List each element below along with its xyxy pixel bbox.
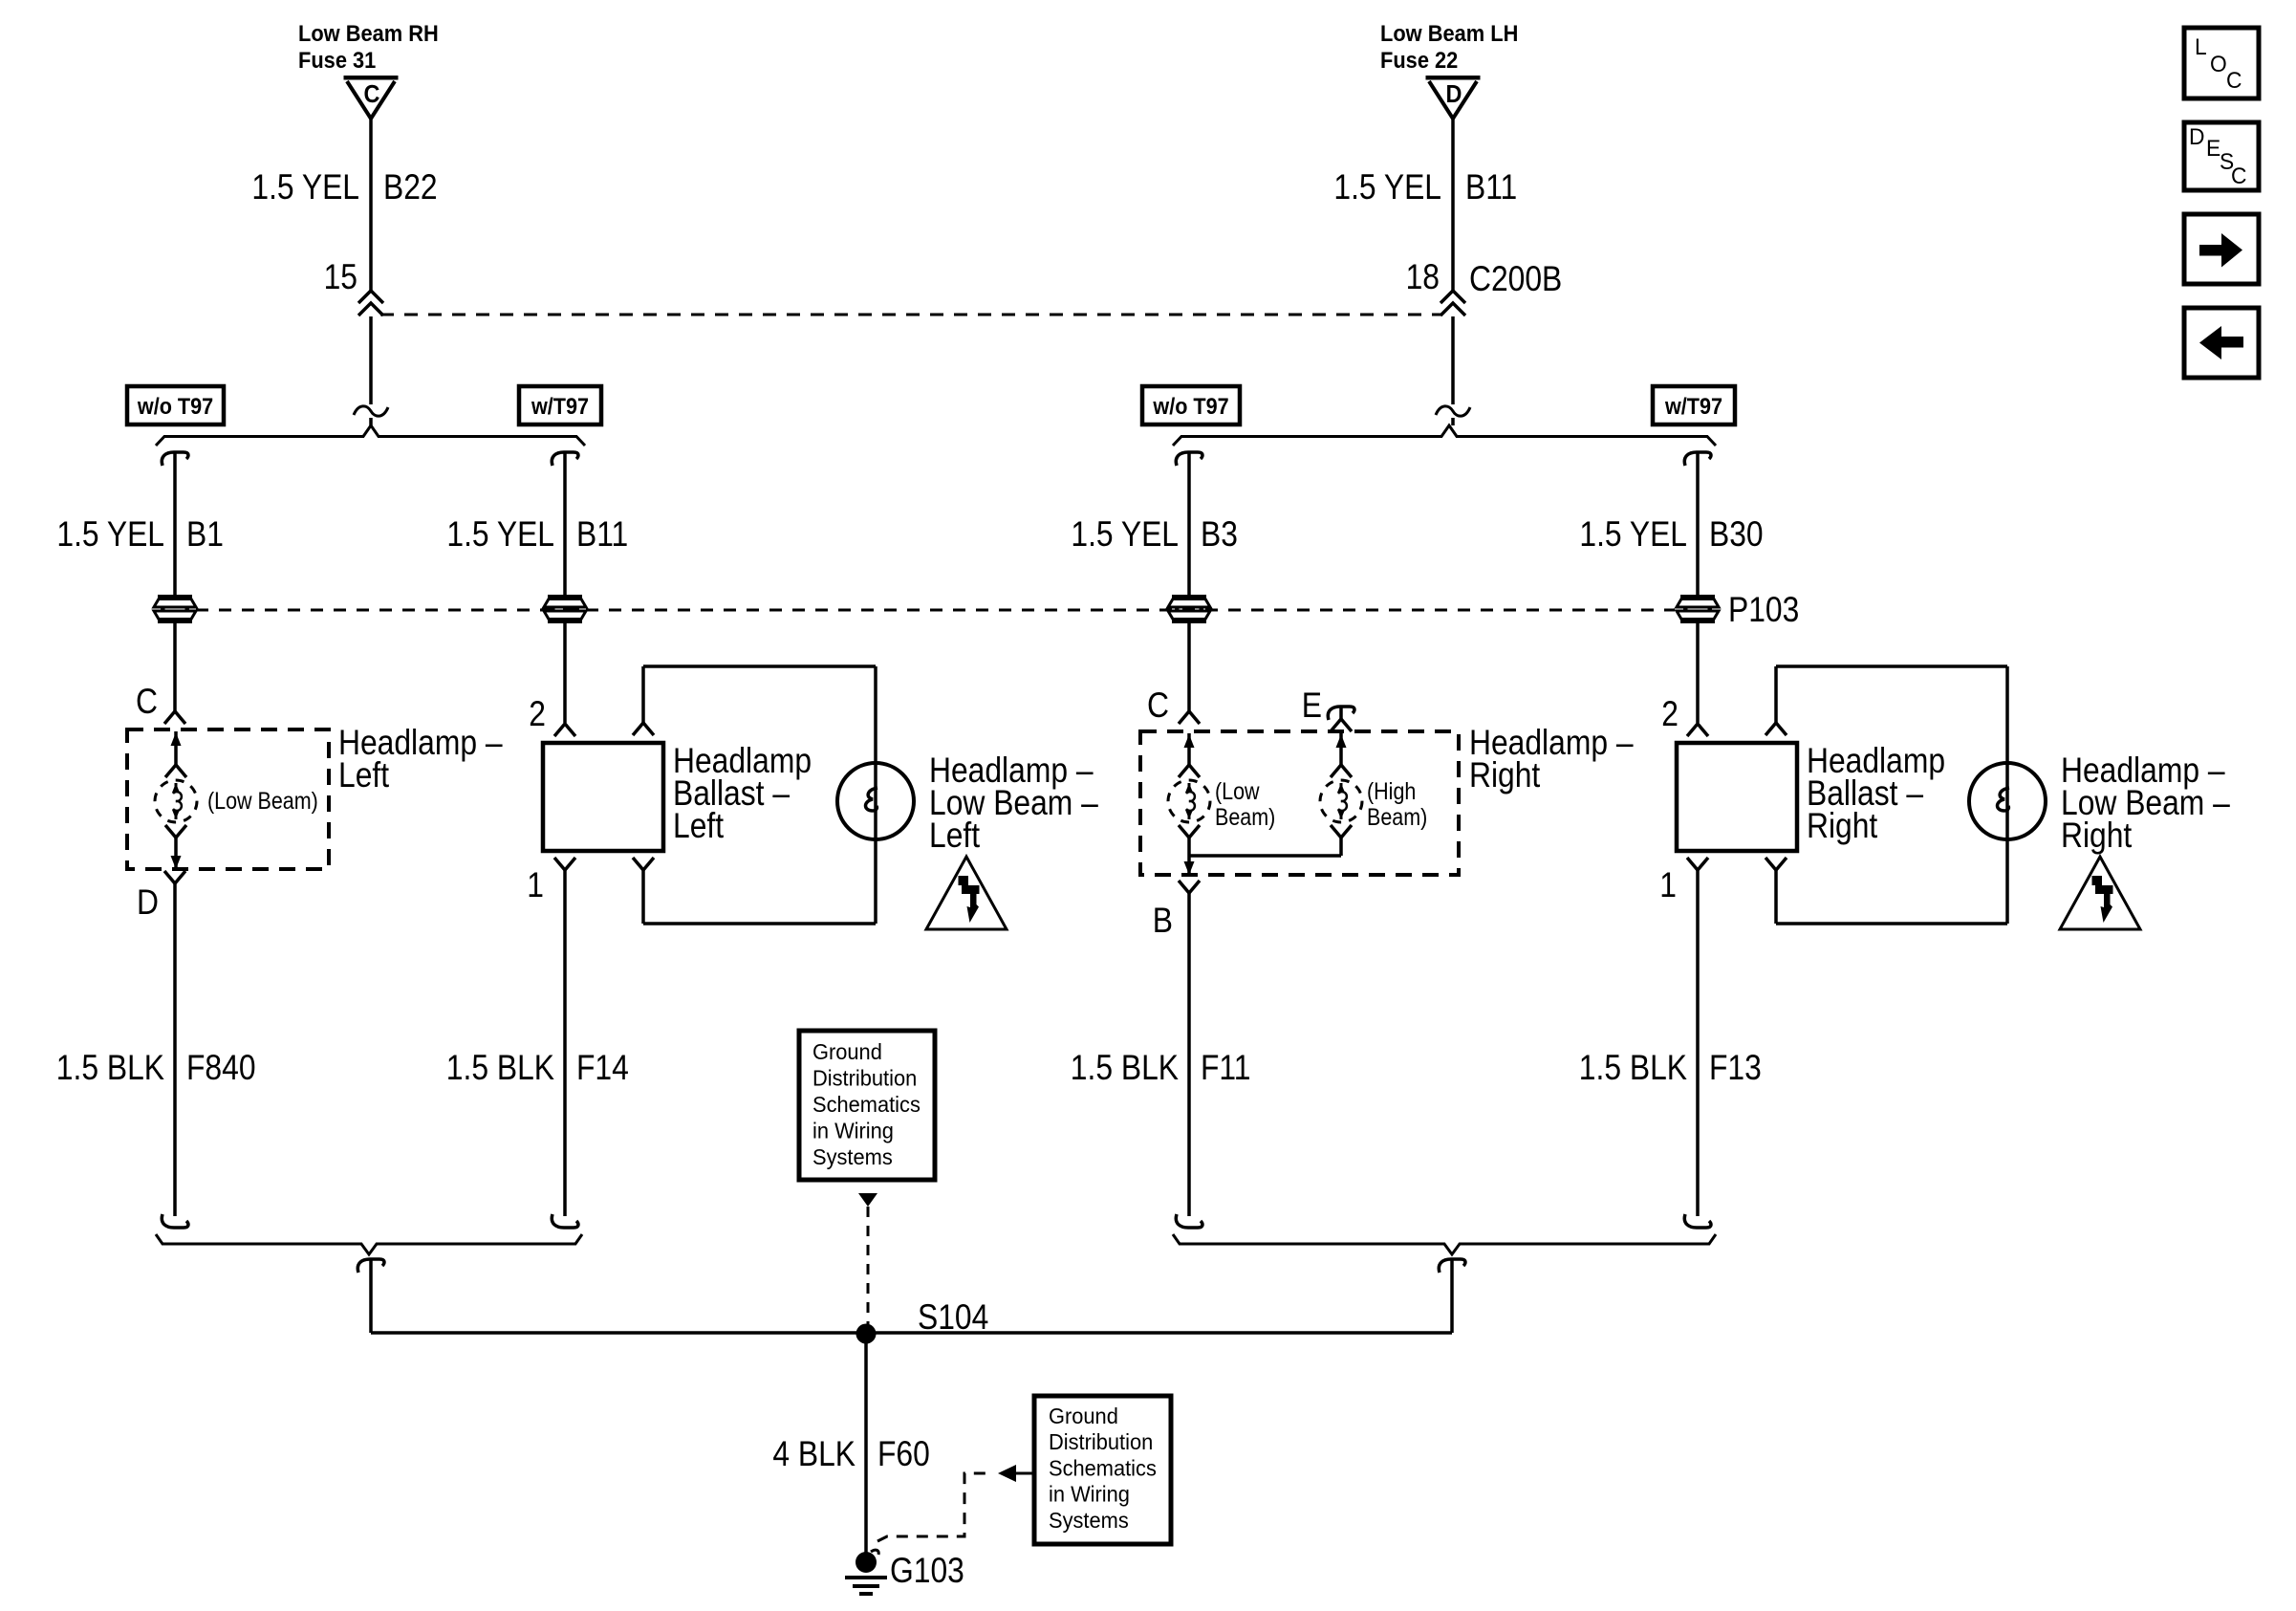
svg-text:E: E <box>1302 686 1322 726</box>
svg-text:B11: B11 <box>1465 168 1517 207</box>
svg-text:C: C <box>2226 67 2242 93</box>
svg-text:4 BLK: 4 BLK <box>772 1435 856 1474</box>
svg-text:1.5 YEL: 1.5 YEL <box>1333 168 1441 207</box>
svg-text:Left: Left <box>673 807 724 846</box>
svg-text:2: 2 <box>1661 695 1679 734</box>
svg-text:G103: G103 <box>890 1552 964 1591</box>
svg-text:Distribution: Distribution <box>812 1066 917 1091</box>
svg-text:C: C <box>364 81 380 108</box>
svg-text:Beam): Beam) <box>1215 803 1275 830</box>
svg-text:F60: F60 <box>877 1435 930 1474</box>
svg-text:E: E <box>2206 135 2220 161</box>
svg-text:in Wiring: in Wiring <box>1049 1482 1130 1507</box>
svg-text:D: D <box>2189 123 2204 149</box>
svg-text:1.5 BLK: 1.5 BLK <box>56 1049 164 1088</box>
svg-text:Right: Right <box>2061 816 2133 856</box>
svg-text:w/o T97: w/o T97 <box>1152 393 1228 419</box>
svg-text:Schematics: Schematics <box>812 1092 921 1117</box>
svg-text:D: D <box>137 883 159 923</box>
svg-text:F14: F14 <box>576 1049 629 1088</box>
svg-text:1.5 YEL: 1.5 YEL <box>446 515 554 555</box>
svg-text:Systems: Systems <box>812 1144 893 1169</box>
svg-text:Right: Right <box>1807 807 1878 846</box>
svg-text:(High: (High <box>1367 777 1416 804</box>
svg-text:S104: S104 <box>918 1298 988 1338</box>
svg-text:1.5 YEL: 1.5 YEL <box>56 515 164 555</box>
svg-text:F11: F11 <box>1201 1049 1250 1088</box>
svg-text:P103: P103 <box>1728 591 1799 630</box>
svg-text:Distribution: Distribution <box>1049 1430 1153 1455</box>
svg-text:F840: F840 <box>186 1049 256 1088</box>
svg-text:15: 15 <box>324 258 357 297</box>
svg-text:L: L <box>2195 33 2207 59</box>
svg-text:B: B <box>1153 902 1173 941</box>
svg-text:1.5 YEL: 1.5 YEL <box>251 168 359 207</box>
svg-text:B11: B11 <box>576 515 628 555</box>
svg-text:B1: B1 <box>186 515 224 555</box>
svg-text:1.5 BLK: 1.5 BLK <box>446 1049 554 1088</box>
svg-text:C: C <box>136 683 158 722</box>
svg-text:w/o T97: w/o T97 <box>137 393 213 419</box>
svg-text:B30: B30 <box>1709 515 1764 555</box>
svg-text:1: 1 <box>1659 866 1677 905</box>
svg-text:1.5 YEL: 1.5 YEL <box>1071 515 1179 555</box>
svg-text:w/T97: w/T97 <box>531 393 589 419</box>
svg-text:Ground: Ground <box>1049 1404 1118 1428</box>
svg-text:B3: B3 <box>1201 515 1238 555</box>
svg-text:C: C <box>2231 163 2246 188</box>
svg-text:(Low Beam): (Low Beam) <box>207 787 318 814</box>
svg-text:1.5 BLK: 1.5 BLK <box>1071 1049 1179 1088</box>
svg-text:1.5 BLK: 1.5 BLK <box>1579 1049 1687 1088</box>
svg-text:(Low: (Low <box>1215 777 1260 804</box>
svg-text:Left: Left <box>929 816 980 856</box>
svg-text:B22: B22 <box>383 168 438 207</box>
svg-text:Beam): Beam) <box>1367 803 1427 830</box>
svg-text:Fuse 31: Fuse 31 <box>298 47 377 73</box>
svg-text:Left: Left <box>338 756 389 795</box>
svg-text:Fuse 22: Fuse 22 <box>1380 47 1458 73</box>
svg-text:Right: Right <box>1469 756 1541 795</box>
svg-text:1.5 YEL: 1.5 YEL <box>1579 515 1687 555</box>
svg-text:Ground: Ground <box>812 1039 882 1064</box>
svg-text:Schematics: Schematics <box>1049 1456 1157 1481</box>
svg-text:C: C <box>1147 686 1169 726</box>
svg-text:2: 2 <box>529 695 546 734</box>
svg-text:1: 1 <box>527 866 544 905</box>
svg-text:w/T97: w/T97 <box>1664 393 1722 419</box>
svg-text:Low Beam LH: Low Beam LH <box>1380 20 1518 46</box>
svg-text:F13: F13 <box>1709 1049 1762 1088</box>
svg-text:18: 18 <box>1406 258 1440 297</box>
svg-text:C200B: C200B <box>1469 260 1562 299</box>
svg-text:O: O <box>2210 51 2227 76</box>
svg-text:Low Beam RH: Low Beam RH <box>298 20 439 46</box>
svg-text:in Wiring: in Wiring <box>812 1119 894 1143</box>
svg-text:Systems: Systems <box>1049 1508 1129 1533</box>
svg-text:D: D <box>1446 81 1462 108</box>
